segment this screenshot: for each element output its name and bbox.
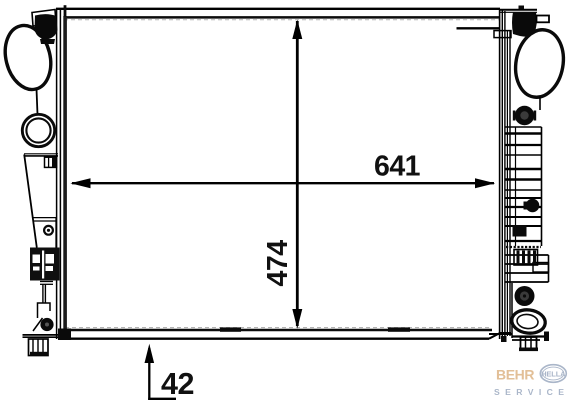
svg-text:42: 42 [161,367,194,400]
dimension 641 left arrowhead [70,178,90,188]
core right side channel [499,9,501,339]
right top cap plate [500,9,537,11]
left tank clip tab [45,157,57,167]
left tank top edge [24,153,58,155]
core left side channel [56,9,58,339]
core bottom plate [59,338,489,340]
lower bracket hook [38,303,51,318]
bottom upturn pin [501,336,507,342]
svg-text:641: 641 [374,151,421,183]
dimension 474 line [296,21,299,326]
right tank ribs [506,127,549,282]
core bottom fin edge [65,329,492,332]
right clamp block [514,250,538,266]
dimension 474 top arrowhead [292,20,302,39]
dimension 42 arrowhead [145,344,155,363]
svg-text:HELLA: HELLA [541,369,566,378]
left top pin [64,5,67,17]
svg-text:SERVICE: SERVICE [494,387,569,397]
bottom-left corner junction [58,329,71,341]
svg-text:BEHR: BEHR [496,366,534,382]
left tank slanted wall [24,155,37,248]
dimension 42 leader line [148,348,150,400]
bottom mounting tab right [388,327,410,331]
core top fin edge [64,16,500,19]
lower stem [42,284,44,303]
right fitting flange line [457,27,501,29]
right drain knob (dark) [515,286,535,306]
right cap top nub [519,6,525,11]
rib side box [533,263,549,273]
oval stem [539,97,541,111]
right outlet ellipse [510,308,546,335]
right bottom bracket [521,337,537,350]
right bottom rails [489,333,512,335]
bottom mounting tab left [220,327,241,331]
left hose port oval [0,21,57,95]
svg-text:474: 474 [262,240,294,287]
right vertical line lower [511,283,513,338]
left inlet fitting (dark) [35,14,58,39]
lower bracket eye (dark) [40,318,53,331]
left mounting block [30,248,60,281]
block lower steps [40,281,53,283]
right bottom cross bar [512,335,549,337]
right hose port oval [510,26,568,101]
dimension 641 right arrowhead [475,178,495,188]
left tank step [33,217,56,219]
filler cap inner ring [26,118,50,142]
oval to cap stem [37,89,38,115]
right zigzag seam [506,246,541,248]
right bottom side tab [544,332,549,342]
right dark patch [513,225,527,237]
radiator core top header plate [56,8,500,10]
bottom plate right upturn [489,333,511,339]
left fitting lower collar [40,39,55,44]
right tank rib edge [541,127,543,246]
right top fitting (dark) [512,12,537,37]
dimension 641 line [72,182,494,184]
left inlet bracket box [32,10,56,27]
foot rails [23,334,60,336]
filler cap outer ring [22,114,54,146]
right sensor knob (dark) [515,106,534,125]
HELLA logo oval [540,365,566,383]
left tank bolt [44,226,53,235]
foot pad [29,339,49,356]
right fitting stub [537,16,550,23]
right small knob (dark) [526,199,540,213]
right flange step box [494,31,511,38]
dimension 474 bottom arrowhead [292,309,302,329]
